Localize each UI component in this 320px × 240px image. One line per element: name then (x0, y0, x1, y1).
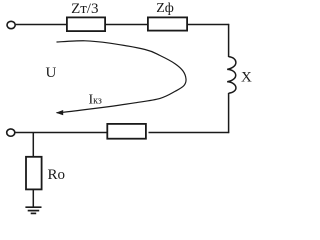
wire: short-circuit current loop curve (57, 41, 187, 113)
wire bottom: resistor to terminal T2 (15, 132, 106, 134)
arrowhead of Iкз (56, 110, 63, 115)
resistor Zф (148, 17, 187, 30)
wire: Ro to ground (32, 190, 34, 207)
svg-text:Iкз: Iкз (89, 93, 102, 108)
resistor Ro (26, 157, 42, 190)
terminal T2 (bottom-left input) (7, 129, 15, 136)
svg-text:X: X (241, 70, 252, 86)
svg-text:Rо: Rо (48, 167, 66, 183)
wire right vertical lower (228, 93, 230, 133)
resistor (bottom, unlabeled) (107, 124, 146, 139)
wire top: terminal T1 to resistor Zт/3 (16, 24, 66, 26)
terminal T1 (top-left input) (7, 21, 15, 28)
resistor Zт/3 (67, 17, 105, 31)
wire top: Zт/3 to Zф (106, 24, 147, 26)
svg-text:U: U (46, 65, 57, 81)
ground (25, 207, 41, 213)
wire right vertical upper (228, 24, 230, 57)
node junction to Ro branch (32, 133, 34, 157)
wire top: Zф to right corner (188, 24, 229, 26)
svg-text:Zт/3: Zт/3 (71, 1, 98, 17)
svg-text:Zф: Zф (156, 1, 174, 16)
inductor X (coil, 3 loops) (227, 57, 236, 93)
wire bottom: right corner to resistor (149, 132, 230, 134)
